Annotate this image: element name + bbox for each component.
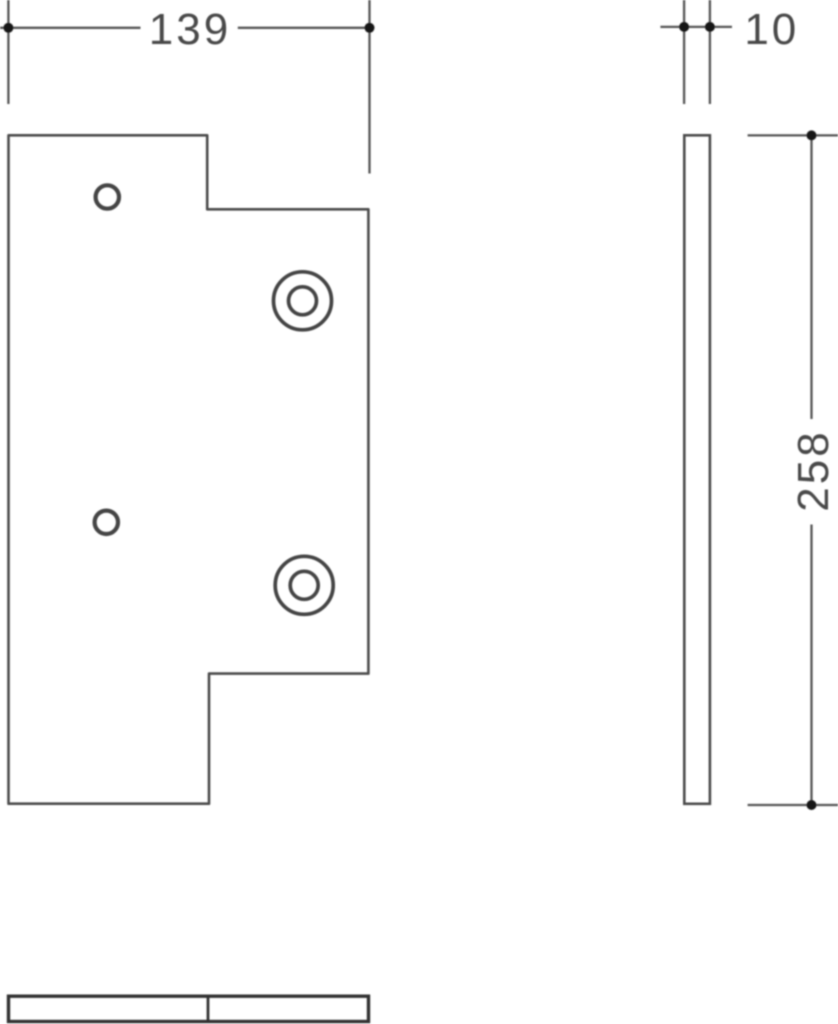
- svg-text:10: 10: [744, 5, 799, 54]
- svg-text:258: 258: [789, 429, 838, 511]
- svg-text:139: 139: [149, 5, 231, 54]
